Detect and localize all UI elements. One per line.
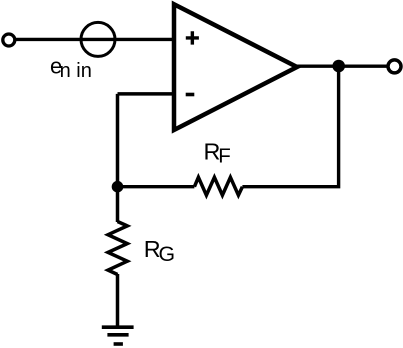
- op-amp minus sign: [186, 93, 195, 97]
- wire: inverting input: [118, 92, 174, 96]
- junction node at inverting divider: [112, 181, 124, 193]
- op-amp U1 triangle: [174, 4, 297, 130]
- wire: noninverting input rail: [15, 38, 173, 41]
- wire: feedback to inverting node: [118, 185, 195, 188]
- svg-text:n in: n in: [60, 60, 92, 82]
- wire: feedback from output down and left: [242, 66, 338, 187]
- wire: node to RG: [116, 187, 120, 222]
- junction node at output: [332, 60, 345, 73]
- wire: inverting node vertical: [116, 94, 120, 187]
- noise source e_n in (circle over wire): [81, 22, 115, 56]
- wire: op-amp output: [296, 65, 387, 68]
- wire: RG to ground: [116, 274, 120, 327]
- svg-text:G: G: [159, 242, 176, 266]
- input terminal (open circle): [3, 34, 15, 46]
- resistor RF zigzag: [194, 177, 242, 195]
- resistor RG zigzag: [108, 222, 127, 275]
- output terminal (open circle): [388, 60, 401, 73]
- svg-text:F: F: [218, 145, 231, 168]
- op-amp plus sign: [186, 31, 199, 44]
- ground symbol: [102, 325, 134, 329]
